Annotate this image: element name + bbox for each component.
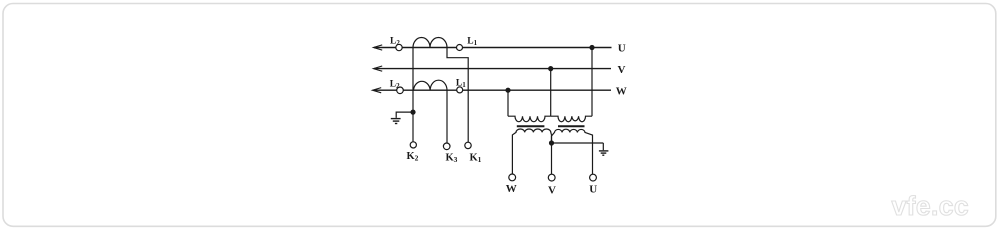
terminal L2 of CT2 [397,87,404,94]
current transformer CT1 secondary coil (U phase) [413,38,447,48]
transformer PT2 core [558,125,585,127]
wire V phase drop to PT [550,69,552,117]
wire W phase drop to PT [507,90,509,116]
transformer PT1 core [517,125,545,127]
terminal L1 of CT1 [457,45,463,51]
svg-text:W: W [506,183,517,195]
wire CT1 lead k1 (right, jog to K1) [447,48,468,143]
node U phase tap [589,45,594,50]
svg-text:V: V [548,185,556,197]
current transformer CT2 secondary coil (W phase) [414,80,448,90]
terminal V (PT secondary) [548,174,555,181]
wire CT1 lead k2 (left, down to K2) [412,48,414,142]
arrow U phase current direction [373,45,382,50]
wire CT2 lead k1 (right, down to K3) [446,90,448,143]
arrow V phase current direction [373,66,382,71]
terminal K1 [465,142,471,148]
wire PT secondary ground link [552,143,604,150]
svg-text:K2: K2 [407,151,419,163]
ground (CT secondary) [391,119,401,124]
arrow W phase current direction [372,88,381,93]
wire U phase drop to PT [591,48,593,117]
svg-text:L2: L2 [390,80,400,91]
wire V secondary drop [551,143,553,174]
terminal K2 [410,142,416,148]
node CT secondary common junction [410,110,415,115]
svg-text:K3: K3 [446,153,458,165]
transformer PT1 secondary winding [512,129,551,174]
svg-text:vfe.cc: vfe.cc [892,191,970,221]
transformer PT1 primary winding (W-V) [508,116,551,122]
terminal W (PT secondary) [509,174,516,181]
svg-text:U: U [618,42,626,54]
ground (PT secondary) [599,151,609,155]
terminal L1 of CT2 [457,87,463,93]
wire W phase line [373,89,611,91]
node V phase tap [548,66,553,71]
node W phase tap [505,88,510,93]
node PT secondary common (V) [549,140,554,145]
wire V phase line [374,68,611,70]
svg-text:V: V [618,64,626,76]
svg-text:W: W [616,85,627,97]
svg-text:L1: L1 [456,79,466,90]
terminal L2 of CT1 [396,44,402,50]
wire ground branch [396,112,413,118]
transformer PT2 secondary winding [552,129,593,174]
transformer PT2 primary winding (V-U) [551,116,592,122]
svg-text:K1: K1 [470,153,482,165]
svg-text:L1: L1 [467,37,477,48]
wire U phase line [374,47,612,49]
svg-text:L2: L2 [390,37,400,48]
terminal K3 [443,143,450,150]
terminal U (PT secondary) [590,174,597,181]
svg-text:U: U [589,184,597,196]
